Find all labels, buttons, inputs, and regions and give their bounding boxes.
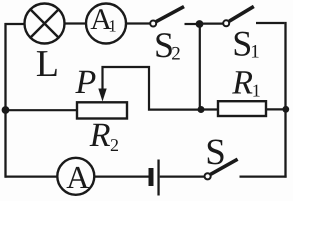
wire wiper P: up, over, down to R1 row <box>103 67 201 110</box>
rheostat R2 body <box>77 102 127 118</box>
battery cell positive plate (long thin) <box>157 160 159 196</box>
wire junction down to R1 node <box>199 24 201 110</box>
wire junction to switch S1 <box>200 23 224 25</box>
wire node to R1 <box>201 108 218 110</box>
node R1 left <box>198 106 205 113</box>
wire right rail <box>284 22 286 178</box>
svg-text:S: S <box>232 24 252 64</box>
svg-text:2: 2 <box>171 44 181 65</box>
svg-text:R: R <box>89 117 111 154</box>
wire left rail <box>4 23 6 178</box>
svg-text:S: S <box>205 132 226 173</box>
wire top-left to lamp <box>5 23 25 25</box>
wire left node to rheostat R2 <box>6 109 79 111</box>
wire A1 to switch S2 <box>126 22 150 24</box>
switch S2 <box>150 7 184 27</box>
wire S1 to top-right corner <box>256 22 284 24</box>
ammeter U A1 <box>86 4 126 44</box>
svg-text:1: 1 <box>252 81 261 101</box>
lamp L <box>25 4 65 44</box>
svg-text:1: 1 <box>108 17 117 36</box>
wire S to bottom-right corner <box>240 176 287 178</box>
svg-text:P: P <box>75 64 97 101</box>
svg-text:R: R <box>231 65 253 102</box>
battery cell negative plate (short thick) <box>149 168 154 186</box>
svg-text:2: 2 <box>110 135 119 155</box>
wire lamp to ammeter A1 <box>65 22 87 24</box>
wiper arrow P <box>98 89 106 102</box>
node junction top (between S2 and S1) <box>196 20 204 28</box>
resistor R1 body <box>218 101 266 116</box>
wire S2 to junction <box>185 23 200 25</box>
svg-text:A: A <box>66 159 89 195</box>
svg-text:1: 1 <box>250 42 259 63</box>
switch S <box>205 159 238 179</box>
ammeter U A <box>57 158 94 195</box>
wire A to battery <box>94 176 148 178</box>
svg-text:L: L <box>36 43 59 85</box>
wire R1 to right node <box>266 108 286 110</box>
node junction left (left rail to R2) <box>2 106 10 114</box>
switch S1 <box>223 6 254 26</box>
node R1 right (on right rail) <box>282 106 289 113</box>
wire battery to switch S <box>160 176 205 178</box>
wire bottom-left to ammeter A <box>5 176 58 178</box>
